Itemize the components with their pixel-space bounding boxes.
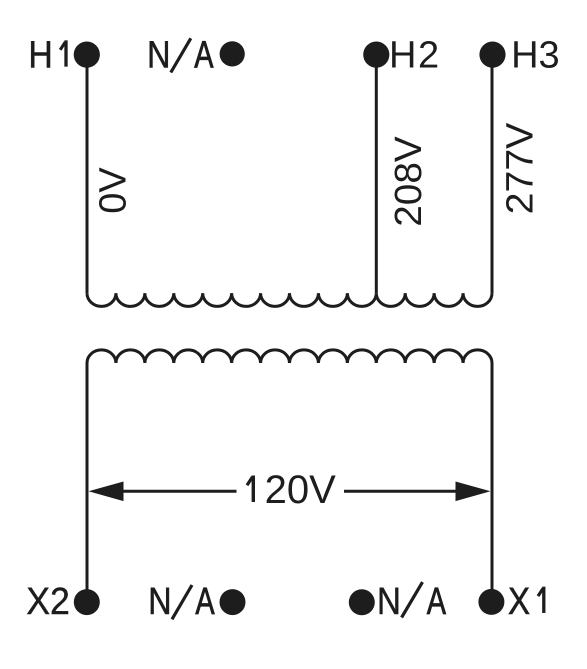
terminal dot N/A (top) [220,41,245,66]
primary winding L1 [87,293,492,306]
svg-text:208V: 208V [387,136,430,227]
voltage label 120V [252,477,255,500]
svg-text:H3: H3 [511,35,560,77]
slash of N/A (top) [171,38,191,72]
svg-text:A: A [194,34,214,77]
slash of N/A (bottom right) [402,582,423,617]
digit 1 of H1 [64,42,67,65]
wire H2 to primary winding [375,55,378,293]
digit 1 of X1 [542,588,545,611]
svg-text:X: X [508,580,530,623]
dimension arrow shaft left [122,490,237,493]
terminal dot X2 [74,589,100,615]
terminal dot H2 [363,42,389,68]
svg-text:277V: 277V [499,122,541,214]
wire X1 from secondary winding [491,363,494,603]
secondary winding L2 [87,350,492,363]
svg-text:N: N [147,34,170,76]
svg-text:A: A [427,580,447,623]
wire X2 from secondary winding [86,363,89,603]
terminal dot X1 [478,589,504,615]
svg-text:20V: 20V [265,468,336,512]
dimension arrowhead left [89,482,124,502]
svg-text:H: H [28,33,52,76]
wire H1 to primary winding [86,55,89,293]
svg-text:0V: 0V [93,167,135,214]
dimension arrowhead right [456,482,491,502]
svg-text:N: N [148,580,171,622]
terminal dot H1 [74,42,100,68]
dimension arrow shaft right [344,490,457,493]
svg-text:N: N [377,580,401,623]
wire H3 to primary winding [491,55,494,293]
svg-text:X2: X2 [26,580,70,622]
svg-text:A: A [195,580,215,623]
slash of N/A (bottom left) [172,585,192,619]
svg-text:H2: H2 [389,35,441,77]
terminal dot N/A (bottom right) [349,589,375,615]
terminal dot N/A (bottom left) [220,589,246,615]
terminal dot H3 [479,42,505,68]
